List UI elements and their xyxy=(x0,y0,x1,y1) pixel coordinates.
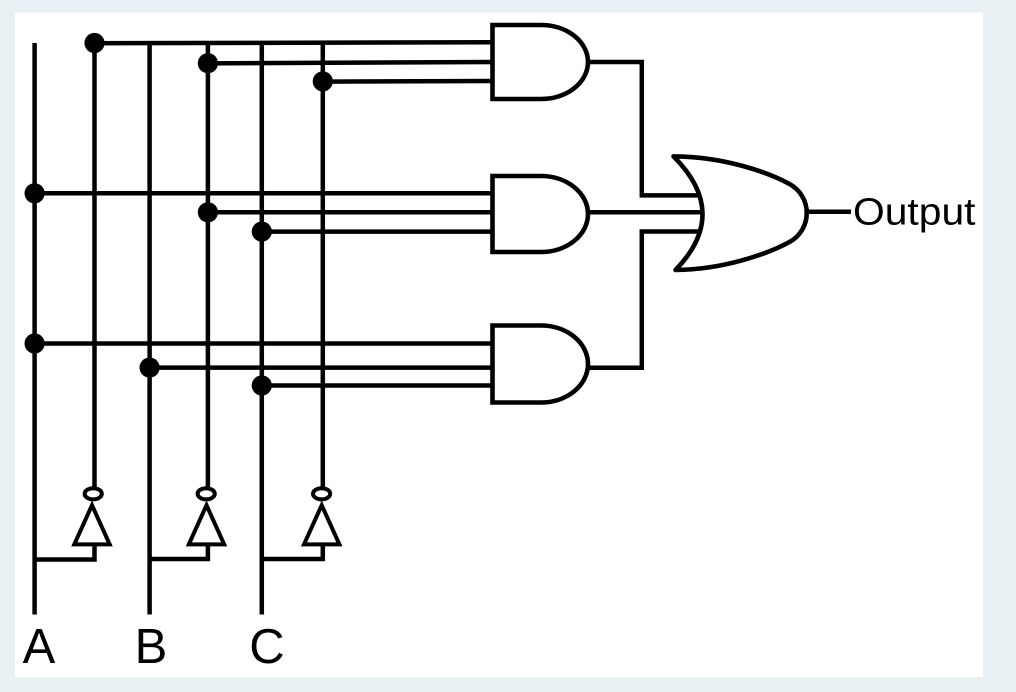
wire: AND2 input 2 (from NOT-B) xyxy=(208,210,494,215)
wire: input B vertical bus xyxy=(147,43,152,615)
wire: AND1 input 3 (from NOT-C) xyxy=(323,79,494,84)
svg-text:Output: Output xyxy=(853,192,976,234)
wire: AND1 input 1 (from NOT-A) xyxy=(95,40,495,45)
wire: NOT-B output vertical bus xyxy=(206,43,211,487)
junction dot: C to AND3 xyxy=(252,375,272,395)
wire: input A vertical bus xyxy=(32,43,37,615)
AND gate U3 (bottom) xyxy=(493,326,589,403)
wire: AND1 output to OR input 1 xyxy=(588,62,703,195)
wire: AND3 input 3 (from C) xyxy=(262,383,494,388)
wire: AND3 output to OR input 3 xyxy=(589,232,703,368)
wire: AND1 input 2 (from NOT-B) xyxy=(208,62,494,63)
NOT gate U6 bubble xyxy=(198,488,215,499)
wire: C to NOT-C input jog xyxy=(262,545,323,560)
wire: AND3 input 1 (from A) xyxy=(35,341,494,346)
wire: AND3 input 2 (from B) xyxy=(150,365,494,370)
wire: AND2 input 3 (from C) xyxy=(262,229,494,234)
AND gate U1 (top) xyxy=(493,25,589,99)
wire: A to NOT-A input jog xyxy=(35,545,95,560)
wire: AND2 input 1 (from A) xyxy=(35,191,494,196)
NOT gate U6 triangle (inverter for B) xyxy=(189,505,224,544)
wire: OR gate output xyxy=(806,210,851,215)
wire: input C vertical bus xyxy=(260,43,265,615)
wire: NOT-A output vertical bus xyxy=(92,43,97,487)
junction dot: NOT-C to AND1 xyxy=(313,71,333,91)
wire: NOT-C output vertical bus xyxy=(321,43,326,487)
svg-text:B: B xyxy=(135,620,168,674)
junction dot: NOT-B to AND2 xyxy=(198,202,218,222)
junction dot: NOT-B to AND1 xyxy=(198,53,218,73)
NOT gate U7 bubble xyxy=(313,488,330,499)
junction dot: A to AND3 xyxy=(24,333,44,353)
OR gate U4 xyxy=(674,156,807,270)
AND gate U2 (middle) xyxy=(493,176,589,252)
junction dot: C to AND2 xyxy=(252,222,272,242)
junction dot: A to AND2 xyxy=(24,183,44,203)
NOT gate U5 bubble xyxy=(85,488,102,499)
svg-text:A: A xyxy=(23,620,56,674)
svg-text:C: C xyxy=(249,620,284,674)
NOT gate U5 triangle (inverter for A) xyxy=(74,505,109,544)
NOT gate U7 triangle (inverter for C) xyxy=(304,505,339,544)
junction dot: NOT-A to AND1 xyxy=(84,33,104,53)
wire: B to NOT-B input jog xyxy=(150,545,208,560)
wire: AND2 output to OR input 2 xyxy=(586,210,704,215)
junction dot: B to AND3 xyxy=(140,358,160,378)
